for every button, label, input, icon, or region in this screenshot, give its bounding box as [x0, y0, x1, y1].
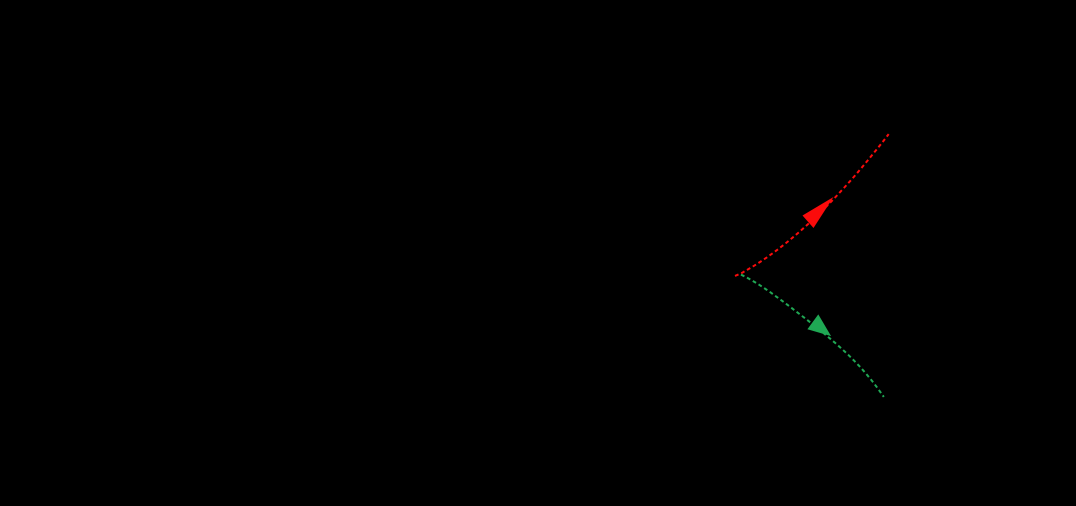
- red dashed trajectory (upper branch, diverging up-right): [735, 134, 889, 276]
- green arrowhead on lower branch: [807, 314, 831, 336]
- green dashed trajectory (lower branch, diverging down-right): [741, 275, 884, 397]
- red arrowhead on upper branch: [803, 197, 834, 228]
